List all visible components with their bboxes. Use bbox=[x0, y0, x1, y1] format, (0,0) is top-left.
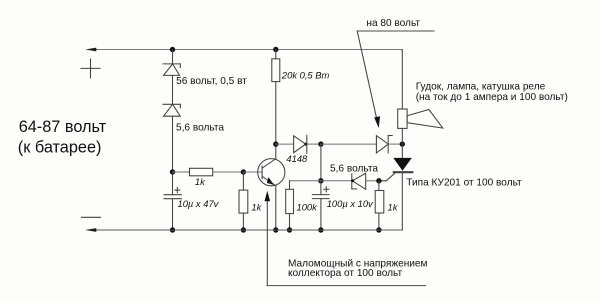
wire R4 to rail bbox=[289, 214, 291, 230]
annotation arrow to D4 bbox=[357, 31, 377, 121]
svg-text:64-87 вольт: 64-87 вольт bbox=[19, 118, 107, 136]
wire C2 to rail bbox=[320, 199, 322, 230]
svg-text:на 80 вольт: на 80 вольт bbox=[366, 18, 420, 29]
svg-text:1k: 1k bbox=[251, 202, 262, 213]
svg-text:1k: 1k bbox=[195, 176, 206, 187]
node: R2 rail bbox=[241, 227, 246, 232]
wire base node down bbox=[242, 172, 244, 190]
arrow bottom-left terminal bbox=[85, 228, 96, 232]
thyristor cathode wire bbox=[401, 173, 403, 230]
wire D3 to node bbox=[307, 143, 321, 145]
node: collector node bbox=[273, 141, 278, 146]
thyristor gate wire bbox=[379, 173, 395, 180]
plus mark C2 bbox=[324, 188, 329, 190]
node: C2 top node bbox=[318, 178, 323, 183]
wire top rail bbox=[88, 49, 402, 51]
node: top rail / zener branch bbox=[170, 47, 175, 52]
svg-text:4148: 4148 bbox=[286, 153, 308, 164]
wire top rail right corner down bbox=[401, 50, 403, 110]
resistor R5 1k bbox=[375, 191, 384, 214]
transistor Q1 collector bbox=[262, 159, 276, 168]
svg-text:1k: 1k bbox=[388, 201, 399, 212]
annotation underline Маломощный bbox=[267, 285, 425, 287]
wire emitter down bbox=[275, 186, 277, 230]
svg-text:(на ток до 1 ампера и 100 воль: (на ток до 1 ампера и 100 вольт) bbox=[416, 92, 568, 103]
svg-text:Типа КУ201 от 100 вольт: Типа КУ201 от 100 вольт bbox=[406, 177, 522, 188]
diode D3 4148 bbox=[294, 136, 306, 153]
wire C1 to rail bbox=[172, 199, 174, 230]
wire node down to gate line bbox=[320, 144, 322, 181]
zener D5 5.6V bbox=[351, 174, 353, 189]
capacitor C2 100u plates bbox=[312, 194, 329, 196]
buzzer BZ1 body bbox=[398, 109, 407, 128]
resistor R2 1k bbox=[239, 190, 248, 213]
annotation arrow to Q1 bbox=[266, 196, 268, 286]
transistor Q1 emitter bbox=[262, 176, 276, 185]
resistor R4 100k bbox=[286, 189, 294, 213]
node: C2 rail bbox=[318, 227, 323, 232]
wire between zeners bbox=[172, 75, 174, 104]
plus terminal mark bbox=[81, 67, 100, 69]
node: base node bbox=[241, 169, 246, 174]
wire node to R1 bbox=[173, 171, 190, 173]
thyristor VS1 cathode bar bbox=[394, 171, 413, 173]
resistor R3 20k bbox=[272, 59, 280, 82]
resistor R1 1k bbox=[190, 168, 213, 176]
wire gate node to R5 bbox=[378, 181, 380, 191]
svg-text:5,6 вольта: 5,6 вольта bbox=[330, 164, 378, 175]
svg-text:10µ x 47v: 10µ x 47v bbox=[178, 198, 220, 209]
svg-text:Гудок, лампа, катушка реле: Гудок, лампа, катушка реле bbox=[416, 81, 546, 92]
zener D1 56V bbox=[163, 63, 180, 65]
node: divider node bbox=[170, 169, 175, 174]
zener D4 (80V) bbox=[376, 136, 388, 153]
svg-text:коллектора от 100 вольт: коллектора от 100 вольт bbox=[288, 268, 402, 279]
zener D2 5.6V bbox=[163, 103, 180, 105]
svg-text:100µ x 10v: 100µ x 10v bbox=[327, 198, 374, 209]
wire D5 to gate node bbox=[366, 180, 379, 182]
wire buzzer to anode node bbox=[401, 128, 403, 144]
node: D3 cathode node bbox=[318, 141, 323, 146]
wire node to capacitor C1 bbox=[172, 172, 174, 195]
capacitor C1 10u plates bbox=[164, 194, 181, 196]
node: C1 rail bbox=[170, 227, 175, 232]
arrow top-left terminal bbox=[85, 48, 96, 52]
node: top rail / 20k bbox=[273, 47, 278, 52]
wire base node to transistor bbox=[243, 171, 262, 173]
label на 80 вольт underline bbox=[357, 30, 434, 32]
buzzer BZ1 horn bbox=[407, 110, 443, 129]
transistor Q1 base bar bbox=[261, 166, 263, 178]
svg-text:100k: 100k bbox=[297, 201, 319, 212]
svg-text:(к батарее): (к батарее) bbox=[18, 138, 102, 156]
node: R4 rail bbox=[287, 227, 292, 232]
wire D4 to anode node bbox=[388, 143, 402, 145]
wire D3 node to D4 bbox=[321, 143, 377, 145]
wire R2 to rail bbox=[242, 213, 244, 230]
minus terminal mark bbox=[82, 216, 101, 218]
wire R3 to collector node bbox=[275, 82, 277, 145]
plus mark C1 bbox=[175, 189, 180, 191]
node: gate node bbox=[376, 178, 381, 183]
wire node to capacitor C2 bbox=[320, 181, 322, 195]
wire collector up bbox=[275, 144, 277, 159]
node: thyristor anode node bbox=[400, 141, 405, 146]
wire R5 to rail bbox=[378, 213, 380, 230]
resistor R4 100k drop wire bbox=[289, 181, 291, 190]
wire R1 to base node bbox=[213, 171, 244, 173]
transistor Q1 body bbox=[258, 159, 285, 186]
wire zeners to node bbox=[172, 116, 174, 172]
wire zener branch top bbox=[172, 50, 174, 64]
wire rail to R3 bbox=[275, 50, 277, 59]
wire anode node to thyristor bbox=[401, 144, 403, 158]
svg-text:5,6 вольта: 5,6 вольта bbox=[176, 122, 224, 133]
node: R5 rail bbox=[376, 227, 381, 232]
transistor Q1 emitter arrow bbox=[267, 177, 275, 185]
svg-text:20k 0,5 Вт: 20k 0,5 Вт bbox=[281, 69, 330, 80]
svg-text:56 вольт, 0,5 вт: 56 вольт, 0,5 вт bbox=[176, 76, 247, 87]
wire bottom rail bbox=[88, 229, 402, 231]
wire gate line left section bbox=[290, 180, 352, 182]
thyristor VS1 triangle bbox=[393, 158, 412, 171]
node: emitter rail bbox=[273, 227, 278, 232]
wire collector node to D3 bbox=[276, 143, 294, 145]
